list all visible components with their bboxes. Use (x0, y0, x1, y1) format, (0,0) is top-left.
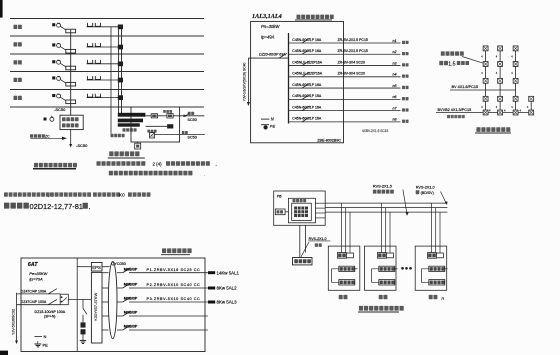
svg-text:DZ47C/4P 100A: DZ47C/4P 100A (21, 300, 47, 304)
svg-text:PE: PE (270, 124, 276, 129)
svg-text:DZ47C/4P 100A: DZ47C/4P 100A (21, 289, 47, 293)
svg-text:MCB/3P: MCB/3P (124, 267, 138, 271)
svg-text:MCB/3P: MCB/3P (124, 311, 138, 315)
svg-text:RVS-2X1.0: RVS-2X1.0 (416, 185, 435, 189)
svg-text:MCB/3P: MCB/3P (124, 283, 138, 287)
svg-text:.: . (89, 202, 91, 211)
svg-text:YJV-0.6/1KV(5X16) SC40: YJV-0.6/1KV(5X16) SC40 (243, 62, 247, 101)
svg-text:14Kw 5AL1: 14Kw 5AL1 (217, 270, 240, 275)
svg-text:MCB/3P: MCB/3P (124, 297, 138, 301)
svg-text:C45N-60C/1P 16A: C45N-60C/1P 16A (292, 49, 322, 53)
svg-text:C45NLE-32/2P16A: C45NLE-32/2P16A (292, 60, 322, 64)
svg-text:ZR-BV-3X4 SC20: ZR-BV-3X4 SC20 (338, 72, 365, 76)
svg-text:C45NLE-32/2P16A: C45NLE-32/2P16A (292, 72, 322, 76)
svg-text:6AT: 6AT (28, 262, 38, 268)
svg-text:ZR-BV-2X2.5 PC15: ZR-BV-2X2.5 PC15 (338, 49, 368, 53)
svg-text:n6: n6 (393, 95, 397, 99)
svg-text:BV 4X1.6/PC15: BV 4X1.6/PC15 (452, 85, 479, 89)
svg-text:,: , (216, 162, 217, 167)
svg-text:1.5: 1.5 (448, 61, 455, 67)
svg-text:-SC50: -SC50 (76, 143, 88, 148)
svg-text:EPS: EPS (92, 265, 101, 270)
svg-text:YJV-5X16/SC32: YJV-5X16/SC32 (12, 309, 16, 335)
svg-text:C45N-60C/1P 16A: C45N-60C/1P 16A (292, 105, 322, 109)
svg-text:Pe=35KW: Pe=35KW (29, 271, 48, 276)
svg-text:C45N-60C/1P 16A: C45N-60C/1P 16A (292, 83, 322, 87)
svg-text:n4: n4 (393, 73, 397, 77)
svg-text:ZBE-8002B9C: ZBE-8002B9C (317, 138, 341, 142)
svg-text:P3.ZRBV-5X10 SC40 CC: P3.ZRBV-5X10 SC40 CC (147, 297, 201, 301)
svg-text:P2.ZRBV-5X10 SC40 CC: P2.ZRBV-5X10 SC40 CC (147, 283, 201, 287)
svg-text:K0: K0 (119, 193, 125, 198)
svg-text:(BD/SV): (BD/SV) (421, 191, 434, 195)
svg-text:Pn=30kW: Pn=30kW (261, 24, 280, 29)
svg-text:.: . (90, 192, 91, 197)
svg-text:8Kw 5AL2: 8Kw 5AL2 (217, 286, 238, 291)
svg-text:n5: n5 (393, 84, 397, 88)
svg-text:MCB/3P: MCB/3P (124, 325, 138, 329)
svg-text:C45N-60C/1P 16A: C45N-60C/1P 16A (292, 117, 322, 121)
svg-text:ZC: ZC (45, 135, 50, 139)
svg-text:C45N-60C/1P 16A: C45N-60C/1P 16A (292, 38, 322, 42)
svg-text:QYC050: QYC050 (111, 262, 126, 266)
svg-text:PE: PE (43, 343, 49, 348)
svg-text:C45N-60C/1P 15A: C45N-60C/1P 15A (292, 94, 322, 98)
svg-text:n2: n2 (393, 50, 397, 54)
svg-text:N: N (44, 334, 47, 339)
svg-text:RVS-2X1.0: RVS-2X1.0 (309, 237, 327, 241)
svg-text:DZ20-60/3P 63A: DZ20-60/3P 63A (259, 53, 286, 57)
svg-text:n8: n8 (393, 118, 397, 122)
svg-text:n1: n1 (393, 39, 397, 43)
svg-text:SC50: SC50 (187, 118, 197, 122)
svg-text:,: , (48, 192, 49, 197)
svg-text:Ijs=70A: Ijs=70A (29, 277, 43, 282)
svg-text:.: . (204, 171, 205, 176)
svg-text:Pt6: Pt6 (277, 194, 282, 198)
svg-text:BVVB2 4X1.5/PC15: BVVB2 4X1.5/PC15 (438, 108, 472, 112)
svg-text:RVS-2X1.5: RVS-2X1.5 (373, 185, 392, 189)
svg-text:ZR-BV-3X4 SC20: ZR-BV-3X4 SC20 (338, 60, 365, 64)
svg-text:-SC50: -SC50 (54, 107, 66, 112)
svg-text:02D12-12,77-81: 02D12-12,77-81 (30, 202, 83, 211)
svg-text:Ip=49A: Ip=49A (261, 35, 275, 40)
svg-text:SC50: SC50 (187, 136, 197, 140)
svg-text:(3P+N): (3P+N) (44, 314, 55, 318)
svg-text:1AL3,1AL4: 1AL3,1AL4 (252, 13, 282, 20)
svg-text:2 (4): 2 (4) (153, 162, 163, 167)
svg-text:8Kw 5AL3: 8Kw 5AL3 (217, 300, 238, 305)
svg-text:YJDY/S7-37KW: YJDY/S7-37KW (93, 293, 98, 322)
svg-text:P1.ZRBV-5X16 SC25 CC: P1.ZRBV-5X16 SC25 CC (147, 268, 201, 272)
svg-text:n3: n3 (393, 61, 397, 65)
svg-text:ZR-BV-2X2.5 PC15: ZR-BV-2X2.5 PC15 (338, 38, 368, 42)
svg-text:4XBV-2X1.5 SC15: 4XBV-2X1.5 SC15 (362, 129, 388, 133)
